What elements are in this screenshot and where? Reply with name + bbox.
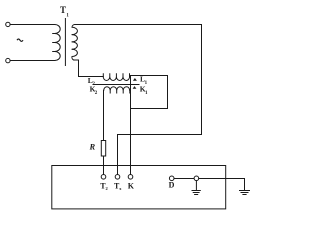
terminal E circle (194, 176, 199, 181)
resistor R body (101, 141, 105, 157)
CT upper winding (bumps hang below line) (103, 77, 129, 81)
transformer T1 core (64, 19, 66, 66)
wire bottom source to T1 primary (10, 60, 55, 62)
transformer T1 secondary winding (72, 25, 78, 60)
CT lower winding (bumps stand up) (104, 87, 130, 91)
label ~ (17, 39, 23, 41)
wire E to external ground (199, 178, 245, 180)
terminal Ta circle (101, 175, 106, 180)
wire top source to T1 primary (10, 24, 55, 26)
CT core bar L2-L1 (93, 84, 139, 86)
wire T1 secondary top to right rail (75, 24, 202, 26)
upper winding cusp ticks (103, 74, 129, 76)
wire terminal Tx up and right to top rail (118, 25, 202, 175)
internal ground stem (195, 181, 197, 191)
secondary winding cusp ticks (72, 35, 74, 50)
source terminal bottom (6, 58, 10, 62)
external ground stem (244, 179, 246, 191)
wire D to E (174, 178, 194, 180)
lower winding cusp ticks (110, 91, 130, 93)
wire K2 down through resistor to terminal (103, 91, 105, 141)
wire box edge down to terminal K (130, 109, 132, 175)
svg-text:K: K (128, 181, 135, 190)
wire resistor to terminal Ta (103, 156, 105, 174)
standard CT box (131, 76, 168, 109)
external ground bars (240, 191, 250, 195)
svg-text:D: D (169, 181, 175, 190)
transformer T1 primary winding (55, 25, 60, 61)
terminal Tx circle (115, 175, 120, 180)
polarity mark L1 (133, 78, 137, 81)
terminal K circle (128, 175, 133, 180)
svg-text:T: T (60, 5, 66, 15)
terminal D circle (169, 176, 174, 181)
wire winding end to box corner (129, 76, 132, 78)
calibrator box (52, 166, 226, 209)
source terminal top (6, 22, 10, 26)
internal ground bars (192, 191, 200, 195)
primary winding cusp ticks (53, 34, 55, 52)
polarity mark K1 (133, 86, 137, 89)
svg-text:R: R (89, 141, 96, 151)
wire T1 secondary bottom elbow down (74, 60, 103, 77)
